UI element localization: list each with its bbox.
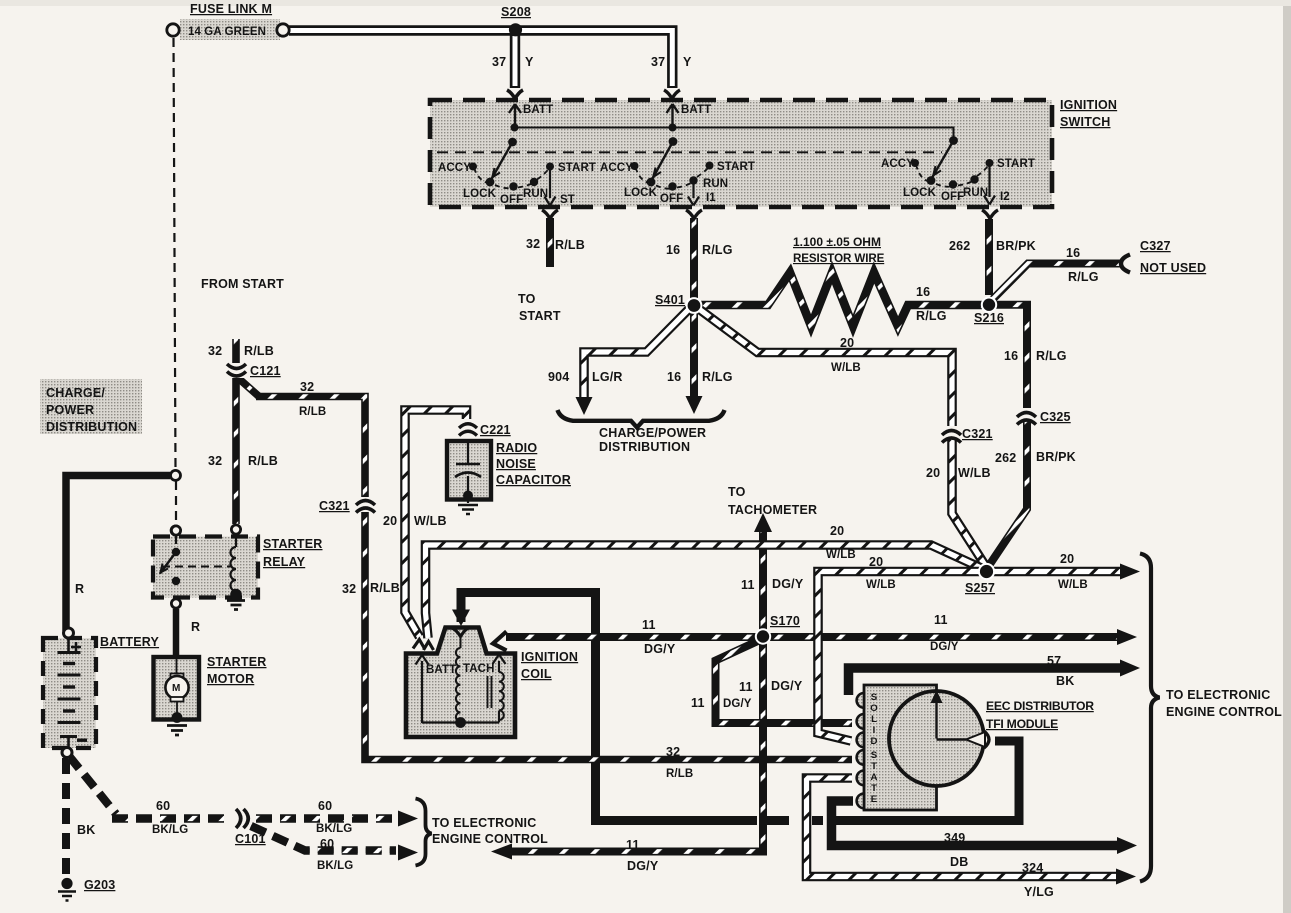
coil primary winding — [456, 637, 461, 723]
svg-text:TO: TO — [518, 292, 536, 306]
svg-text:20: 20 — [869, 555, 883, 569]
svg-text:20: 20 — [926, 466, 940, 480]
svg-text:20: 20 — [1060, 552, 1074, 566]
svg-text:16: 16 — [666, 243, 680, 257]
starter relay box — [153, 537, 258, 598]
label 11 DG/Y tach wire — [741, 577, 804, 592]
label IGNITION SWITCH — [1060, 98, 1117, 129]
label 11 DG/Y right of S170 — [930, 613, 959, 653]
svg-text:37: 37 — [651, 55, 665, 69]
label CHARGE/ POWER DISTRIBUTION box — [46, 386, 137, 434]
wire BK battery to G203 (dashed) — [62, 758, 70, 877]
fuse link right circle — [277, 24, 289, 36]
label 349 DB — [944, 831, 968, 869]
label C321 right — [962, 427, 993, 441]
brace charge/power distribution — [558, 410, 725, 428]
ignition sw2 detent arc — [636, 168, 709, 189]
label 20 W/LB S257 feed — [866, 555, 896, 591]
label 20 W/LB long wire — [826, 524, 856, 561]
label 32 R/LB horizontal — [299, 380, 326, 418]
svg-text:IGNITION: IGNITION — [1060, 98, 1117, 112]
svg-text:BK: BK — [1056, 674, 1074, 688]
wire 11 DG/Y to tachometer — [759, 527, 767, 630]
distributor circle — [889, 691, 984, 786]
terminal Y below I2 exit — [982, 210, 998, 219]
label 1.100 OHM resistor wire — [793, 235, 885, 265]
svg-text:I: I — [873, 725, 876, 736]
terminal arrow at coil TACH (11 DG/Y end) — [493, 632, 507, 651]
node S208 — [509, 23, 522, 36]
connector C327 not-used fork — [1121, 255, 1130, 273]
label 16 R/LG below S216 — [1004, 349, 1067, 363]
svg-text:R/LG: R/LG — [702, 370, 733, 384]
ignition sw2 lever — [653, 124, 678, 179]
svg-text:RUN: RUN — [963, 187, 988, 199]
labels sw1 positions — [438, 162, 596, 206]
svg-text:E: E — [871, 794, 878, 805]
svg-text:W/LB: W/LB — [1058, 579, 1088, 591]
arrow 60 BK/LG upper right — [398, 811, 418, 827]
label 11 DG/Y bottom arrow — [626, 838, 659, 873]
svg-text:DISTRIBUTION: DISTRIBUTION — [46, 420, 137, 434]
svg-text:LOCK: LOCK — [903, 187, 937, 199]
svg-text:TO ELECTRONIC: TO ELECTRONIC — [432, 816, 536, 830]
label S216 — [974, 311, 1004, 325]
wire S216 to C327 — [992, 264, 1121, 301]
terminal Y at coil center top — [452, 628, 469, 637]
svg-text:Y/LG: Y/LG — [1024, 885, 1054, 899]
label RADIO NOISE CAPACITOR — [496, 441, 571, 487]
svg-text:OFF: OFF — [500, 194, 523, 206]
radio noise capacitor box — [447, 441, 491, 500]
svg-text:C221: C221 — [480, 423, 511, 437]
svg-text:S208: S208 — [501, 5, 531, 19]
terminal Y below ST exit — [542, 210, 558, 219]
svg-text:W/LB: W/LB — [831, 362, 861, 374]
label 16 R/LG to C327 — [1066, 246, 1099, 284]
svg-text:11: 11 — [691, 696, 705, 710]
svg-text:R/LG: R/LG — [702, 243, 733, 257]
ignition coil box — [406, 628, 515, 738]
wire C121 branch diagonal — [237, 377, 259, 397]
svg-text:C321: C321 — [319, 499, 350, 513]
svg-text:BK/LG: BK/LG — [317, 860, 353, 872]
wire S216 right down to C325 and S257 — [988, 305, 1027, 567]
label 262 BR/PK lower — [995, 450, 1076, 465]
ground starter relay — [227, 601, 245, 610]
svg-text:COIL: COIL — [521, 667, 552, 681]
svg-text:BR/PK: BR/PK — [996, 239, 1036, 253]
wire 324 Y/LG from TFI pin5 — [807, 778, 1120, 877]
node S401 — [687, 298, 702, 313]
wire 20 W/LB from S401 to C321 and down to S257 — [699, 309, 988, 569]
arrow coil feed down — [452, 610, 470, 627]
arrow 11 DG/Y left — [491, 844, 512, 860]
label + — [71, 642, 81, 652]
label 37 Y second drop — [651, 55, 692, 69]
resistor wire zigzag — [701, 273, 982, 327]
svg-text:11: 11 — [739, 680, 753, 694]
svg-text:R/LG: R/LG — [916, 309, 947, 323]
svg-text:EEC DISTRIBUTOR: EEC DISTRIBUTOR — [986, 699, 1094, 713]
svg-text:BK/LG: BK/LG — [152, 824, 188, 836]
label FUSE LINK M — [190, 2, 272, 16]
brace to electronic engine control (large, right) — [1140, 554, 1160, 882]
svg-text:14 GA GREEN: 14 GA GREEN — [188, 26, 266, 38]
wire 60 BK/LG battery diagonal (dashed) — [69, 756, 116, 814]
label C121 — [250, 364, 281, 378]
svg-text:FUSE LINK M: FUSE LINK M — [190, 2, 272, 16]
svg-text:RUN: RUN — [523, 188, 548, 200]
ignition sw3 I2 line and arrow — [984, 167, 995, 205]
coil secondary winding — [499, 672, 504, 720]
label TO ELECTRONIC ENGINE CONTROL large — [1166, 688, 1282, 719]
svg-text:BR/PK: BR/PK — [1036, 450, 1076, 464]
svg-text:R: R — [191, 620, 200, 634]
svg-text:STARTER: STARTER — [263, 537, 323, 551]
connector C121 — [226, 363, 246, 378]
labels sw3 positions — [881, 158, 1035, 203]
labels sw2 positions — [600, 161, 755, 205]
wire 20 W/LB coil to S257 long — [426, 545, 986, 638]
connector C101 — [232, 808, 248, 829]
label 324 Y/LG — [1022, 861, 1054, 899]
wire 20 W/LB S257 left to TFI pin3 — [818, 572, 980, 742]
distributor rotor lines — [931, 690, 967, 740]
svg-text:BATT: BATT — [681, 104, 711, 116]
svg-text:A: A — [871, 772, 878, 783]
label S401 — [655, 293, 685, 307]
svg-text:SWITCH: SWITCH — [1060, 115, 1111, 129]
relay bottom terminal circle — [171, 599, 180, 608]
svg-text:BK: BK — [77, 823, 95, 837]
svg-text:DG/Y: DG/Y — [772, 577, 804, 591]
svg-text:CAPACITOR: CAPACITOR — [496, 473, 571, 487]
svg-text:T: T — [871, 783, 877, 794]
arrow 904 LG/R down — [576, 397, 593, 415]
terminal Y at S208 drop to BATT1 — [507, 90, 523, 101]
ignition sw3 lever — [933, 136, 958, 177]
svg-text:LOCK: LOCK — [624, 187, 658, 199]
svg-text:ACCY: ACCY — [600, 162, 633, 174]
ignition sw1 BATT terminal arrow — [509, 104, 521, 127]
motor armature M — [165, 659, 188, 723]
svg-text:32: 32 — [526, 237, 540, 251]
label G203 — [84, 878, 115, 892]
svg-text:DG/Y: DG/Y — [644, 642, 676, 656]
svg-text:CHARGE/: CHARGE/ — [46, 386, 105, 400]
label 32 R/LB bottom — [666, 745, 693, 780]
label 16 R/LG at resistor exit — [916, 285, 947, 323]
wire 60 BK/LG to C101 (dashed) — [112, 814, 230, 822]
svg-text:DB: DB — [950, 855, 968, 869]
label 11 DG/Y below S170 — [739, 679, 803, 694]
label BATT sw2 — [681, 104, 711, 116]
arrow 60 BK/LG lower right — [398, 845, 418, 861]
wire S170 branch to TFI pin2 — [716, 640, 853, 723]
arrow 57 BK right — [1120, 660, 1140, 677]
connector C325 — [1016, 408, 1037, 425]
ground G203 — [58, 878, 76, 901]
ignition internal dashed detent line — [437, 151, 942, 153]
svg-text:324: 324 — [1022, 861, 1043, 875]
svg-text:TFI MODULE: TFI MODULE — [986, 717, 1058, 731]
svg-text:R/LB: R/LB — [555, 238, 585, 252]
label S170 — [770, 614, 800, 628]
label TO TACHOMETER — [728, 485, 817, 517]
svg-text:I1: I1 — [706, 192, 716, 204]
right page edge band — [1283, 0, 1291, 913]
label C325 — [1040, 410, 1071, 424]
svg-text:16: 16 — [1066, 246, 1080, 260]
svg-text:262: 262 — [949, 239, 970, 253]
arrow 11 DG/Y right — [1117, 629, 1137, 645]
ignition sw3 position dots — [911, 159, 994, 189]
label 14 GA GREEN — [188, 26, 266, 38]
wire 904 LG/R from S401 — [584, 308, 690, 399]
wire S401 down 16 R/LG — [690, 312, 698, 399]
label SOLID STATE vertical — [870, 692, 878, 805]
svg-text:RESISTOR WIRE: RESISTOR WIRE — [793, 252, 885, 265]
node circle on dashed line (R wire tap) — [171, 470, 181, 480]
svg-text:ACCY: ACCY — [881, 158, 914, 170]
svg-text:START: START — [519, 309, 561, 323]
label BATT coil — [426, 664, 456, 676]
coil TACH terminal arrow — [493, 655, 506, 673]
svg-text:16: 16 — [1004, 349, 1018, 363]
brace to electronic engine control (small, C101) — [416, 799, 432, 866]
label BK — [77, 823, 95, 837]
svg-text:ST: ST — [560, 194, 575, 206]
svg-text:STARTER: STARTER — [207, 655, 267, 669]
relay switch lever — [160, 548, 180, 585]
starter motor box — [154, 657, 200, 720]
svg-text:32: 32 — [666, 745, 680, 759]
label 20 W/LB right vertical — [926, 466, 991, 480]
svg-text:20: 20 — [840, 336, 854, 350]
wire 11 DG/Y long horizontal — [506, 633, 1122, 641]
label 20 W/LB right of S257 — [1058, 552, 1088, 591]
svg-text:R/LB: R/LB — [244, 344, 274, 358]
label 60 BK/LG upper branch — [316, 799, 352, 835]
svg-text:DG/Y: DG/Y — [723, 698, 752, 710]
wire ST stub — [546, 218, 554, 267]
label 32 R/LB left vertical — [342, 581, 400, 596]
svg-text:ENGINE CONTROL: ENGINE CONTROL — [1166, 705, 1282, 719]
label TACH coil — [463, 663, 495, 675]
svg-text:RELAY: RELAY — [263, 555, 306, 569]
wire R relay to starter motor — [173, 609, 180, 656]
svg-text:20: 20 — [830, 524, 844, 538]
label 32 R/LB upper stub — [208, 344, 274, 358]
wire 37 Y horizontal + drops — [289, 31, 672, 89]
svg-text:W/LB: W/LB — [866, 579, 896, 591]
label R battery wire — [75, 582, 84, 596]
battery terminal circle bottom — [62, 748, 72, 758]
label STARTER RELAY — [263, 537, 323, 569]
svg-text:20: 20 — [383, 514, 397, 528]
svg-text:1.100 ±.05 OHM: 1.100 ±.05 OHM — [793, 235, 881, 249]
ignition sw1 detent arc — [474, 168, 549, 188]
label 37 Y first drop — [492, 55, 534, 69]
svg-text:C325: C325 — [1040, 410, 1071, 424]
label BATT sw1 — [523, 104, 553, 116]
capacitor symbol — [455, 441, 481, 503]
TFI module box — [864, 685, 937, 810]
svg-text:C321: C321 — [962, 427, 993, 441]
wire R battery to tap — [66, 476, 170, 632]
svg-text:DG/Y: DG/Y — [771, 679, 803, 693]
label 32 R/LB at ST — [526, 237, 585, 252]
svg-text:CHARGE/POWER: CHARGE/POWER — [599, 426, 706, 440]
svg-text:R/LB: R/LB — [666, 768, 693, 780]
svg-text:L: L — [871, 714, 877, 725]
svg-text:C101: C101 — [235, 832, 266, 846]
svg-text:NOT USED: NOT USED — [1140, 261, 1206, 275]
svg-text:DISTRIBUTION: DISTRIBUTION — [599, 440, 690, 454]
label 262 BR/PK upper — [949, 239, 1036, 253]
terminal Y below I1 exit — [686, 210, 702, 219]
svg-text:ACCY: ACCY — [438, 162, 471, 174]
arrow to tachometer — [754, 513, 772, 532]
ignition sw1 ST line and arrow — [545, 170, 556, 206]
node circle above starter relay — [171, 526, 180, 535]
top page edge band — [0, 0, 1291, 6]
label CHARGE/POWER DISTRIBUTION bracket — [599, 426, 706, 454]
arrow 324 Y/LG right — [1116, 869, 1136, 885]
charge/power distribution label box — [40, 379, 142, 434]
ignition sw3 detent arc — [916, 165, 989, 187]
coil core lines — [488, 676, 492, 708]
svg-text:16: 16 — [916, 285, 930, 299]
svg-text:S: S — [871, 692, 878, 703]
arrow 16 R/LG down — [686, 396, 703, 414]
wire pin6 to 349 DB — [832, 801, 1122, 846]
svg-text:FROM START: FROM START — [201, 277, 284, 291]
label 904 LG/R — [548, 370, 623, 384]
svg-text:S257: S257 — [965, 581, 995, 595]
svg-text:POWER: POWER — [46, 403, 94, 417]
ignition switch box — [430, 100, 1052, 207]
arrow 349 DB right — [1117, 837, 1137, 854]
ignition sw2 BATT terminal arrow — [667, 104, 679, 127]
svg-text:Y: Y — [683, 55, 692, 69]
svg-text:DG/Y: DG/Y — [627, 859, 659, 873]
battery plates — [58, 639, 81, 748]
label 57 BK — [1047, 654, 1074, 688]
svg-text:NOISE: NOISE — [496, 457, 536, 471]
svg-text:W/LB: W/LB — [414, 514, 447, 528]
svg-text:G203: G203 — [84, 878, 115, 892]
svg-text:T: T — [871, 761, 877, 772]
label 11 DG/Y branch — [691, 696, 752, 710]
svg-text:RUN: RUN — [703, 178, 728, 190]
svg-text:349: 349 — [944, 831, 965, 845]
svg-text:262: 262 — [995, 451, 1016, 465]
svg-text:BATTERY: BATTERY — [100, 635, 159, 649]
wire S170 down and left to EEC arrow — [512, 643, 763, 852]
battery terminal circle top — [64, 628, 74, 638]
fuse link M gray box — [180, 19, 280, 40]
wire I1 16 R/LG — [690, 218, 698, 298]
label IGNITION COIL — [521, 650, 578, 681]
svg-text:37: 37 — [492, 55, 506, 69]
label C221 — [480, 423, 511, 437]
svg-text:S: S — [871, 750, 878, 761]
svg-text:11: 11 — [934, 613, 948, 627]
svg-text:S401: S401 — [655, 293, 685, 307]
node S216 — [982, 298, 996, 312]
wire 262 BR/PK ignition I2 to S216 — [985, 219, 993, 295]
shield wire solid to distributor rotor — [836, 741, 1019, 821]
label C327 NOT USED — [1140, 239, 1206, 275]
fuse link left circle — [167, 24, 179, 36]
svg-text:32: 32 — [208, 344, 222, 358]
label - — [77, 739, 87, 742]
svg-text:LOCK: LOCK — [463, 188, 497, 200]
svg-text:32: 32 — [300, 380, 314, 394]
svg-text:S216: S216 — [974, 311, 1004, 325]
TFI pin bumps — [857, 693, 864, 808]
label 20 W/LB upper horizontal — [831, 336, 861, 374]
dashed line from fuse link down to relay — [174, 38, 177, 545]
label 60 BK/LG first — [152, 799, 188, 836]
svg-text:60: 60 — [320, 837, 334, 851]
svg-text:M: M — [172, 683, 180, 694]
svg-text:C327: C327 — [1140, 239, 1171, 253]
svg-text:IGNITION: IGNITION — [521, 650, 578, 664]
svg-text:Y: Y — [525, 55, 534, 69]
svg-text:16: 16 — [667, 370, 681, 384]
ignition sw1 position dots — [469, 163, 554, 191]
connector C321 (left) — [355, 497, 375, 513]
svg-text:BATT: BATT — [426, 664, 456, 676]
node S170 — [756, 629, 770, 643]
ground radio capacitor — [458, 505, 478, 514]
svg-text:R/LB: R/LB — [370, 581, 400, 595]
label C321 left — [319, 499, 350, 513]
svg-text:R/LG: R/LG — [1036, 349, 1067, 363]
svg-text:RADIO: RADIO — [496, 441, 537, 455]
coil BATT terminal arrow — [416, 655, 429, 723]
label 16 R/LG at I1 — [666, 243, 733, 257]
svg-text:BATT: BATT — [523, 104, 553, 116]
svg-text:R/LB: R/LB — [248, 454, 278, 468]
label R relay wire — [191, 620, 200, 634]
svg-text:60: 60 — [156, 799, 170, 813]
connector C321 (right) — [941, 426, 962, 443]
svg-text:TACH: TACH — [463, 663, 495, 675]
svg-text:TACHOMETER: TACHOMETER — [728, 503, 817, 517]
svg-text:START: START — [717, 161, 755, 173]
wire 60 BK/LG C101 upper branch (dashed) — [256, 814, 396, 822]
svg-text:START: START — [558, 162, 596, 174]
label 11 DG/Y left of S170 — [642, 618, 676, 656]
relay coil winding — [230, 534, 242, 600]
ignition sw2 position dots — [631, 162, 714, 191]
ignition sw2 I1 line and arrow — [688, 184, 699, 206]
ignition sw1 lever — [492, 124, 519, 180]
shield wire dashes — [767, 816, 823, 825]
relay top terminal circle left — [171, 526, 180, 535]
label 20 W/LB capacitor loop — [383, 514, 447, 528]
svg-text:BK/LG: BK/LG — [316, 823, 352, 835]
relay internal dashed line — [162, 566, 231, 568]
wire 20 W/LB S257 right to EEC — [993, 567, 1121, 577]
wire 32 R/LB horizontal + down + bottom run to TFI pin4 — [256, 397, 852, 760]
wire 60 BK/LG C101 lower branch (dashed) — [251, 826, 396, 851]
wire 32 R/LB from start stub — [232, 339, 240, 524]
